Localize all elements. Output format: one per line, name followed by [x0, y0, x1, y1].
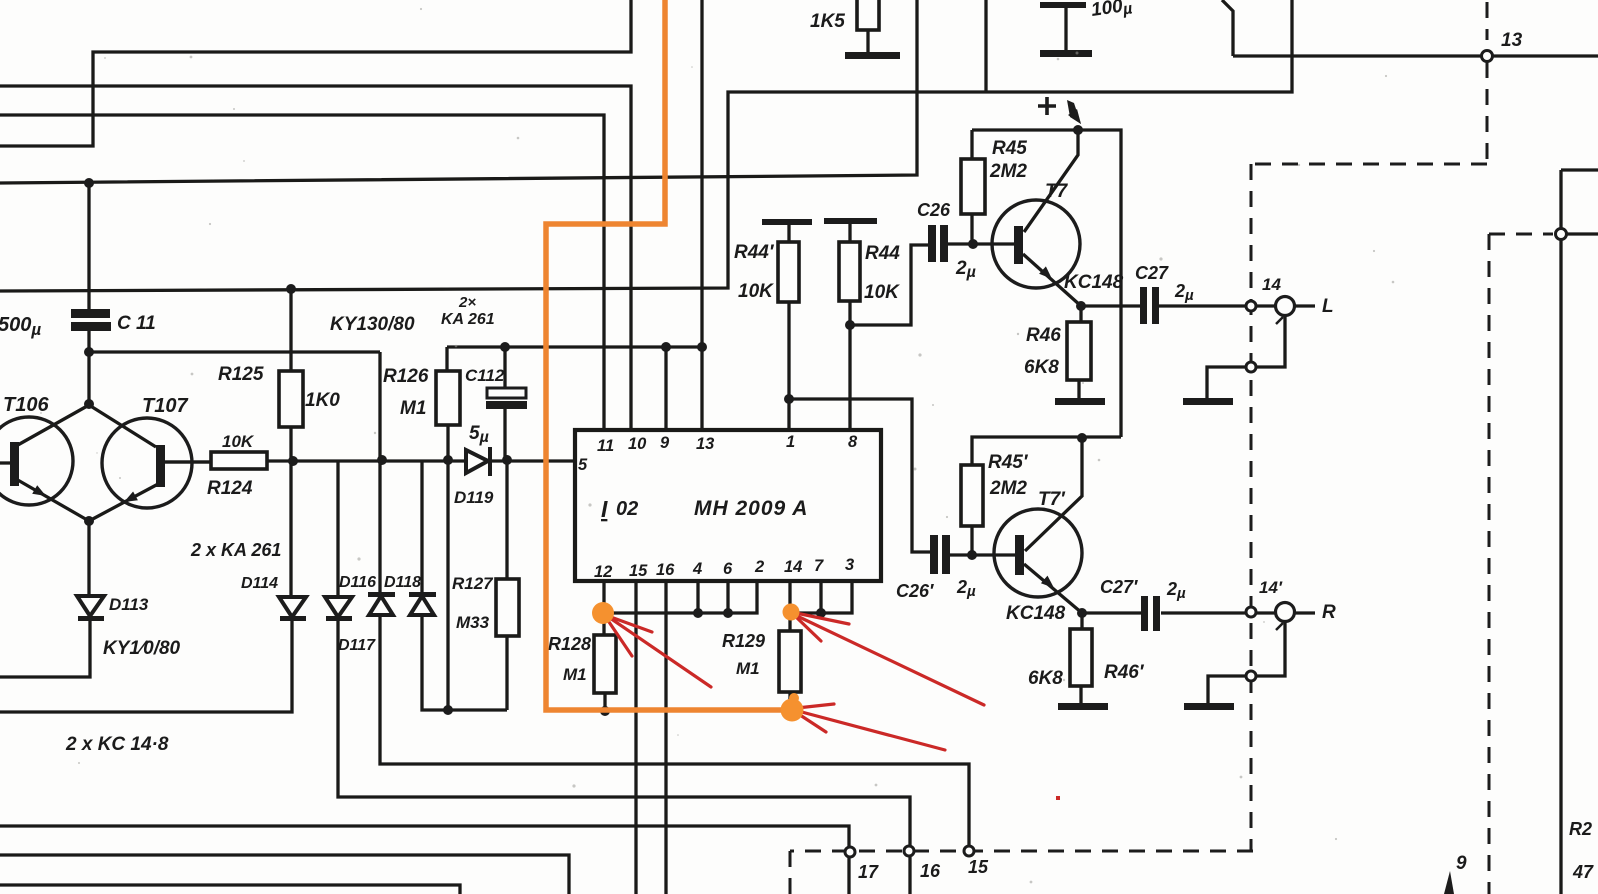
svg-text:3: 3 — [845, 556, 854, 574]
transistor T7p circle — [994, 509, 1082, 597]
svg-text:D114: D114 — [241, 575, 278, 592]
svg-text:R128: R128 — [548, 634, 591, 654]
wire feeding IC pin 10 — [0, 86, 631, 430]
resistor R45p 2M2 — [961, 465, 983, 526]
wire y347 branch to R126 C112 pins 9 13 — [447, 345, 702, 348]
connector circle right edge — [1556, 229, 1567, 240]
svg-text:MH 2009 A: MH 2009 A — [694, 497, 808, 520]
dashed link to circle node — [1489, 233, 1553, 236]
svg-text:9: 9 — [1456, 853, 1467, 874]
wire R46p bottom — [1079, 686, 1082, 703]
resistor R125 1K0 — [279, 371, 303, 427]
wire R125 top lead — [289, 289, 292, 371]
wire jogged net top-left — [0, 0, 631, 146]
resistor R129 M1 — [779, 631, 801, 692]
wire IC pin 12 to R128 — [602, 581, 605, 635]
wire D118 bottom to connector 15 — [380, 616, 969, 847]
connector circle 16 — [904, 846, 914, 856]
svg-text:M1: M1 — [736, 659, 760, 678]
wire C27 to output L — [1158, 304, 1315, 307]
capacitor C41 plates — [71, 309, 110, 318]
base bar T106 — [10, 442, 19, 486]
wire D113 bottom to left edge — [0, 618, 90, 677]
wire C112 top lead — [503, 347, 506, 388]
wire right edge solid vertical — [1559, 170, 1562, 894]
orange highlight trace — [546, 0, 790, 710]
node dot T7p emitter — [1077, 608, 1087, 618]
svg-text:14′: 14′ — [1259, 578, 1283, 597]
resistor R46 6K8 — [1067, 322, 1091, 380]
cathode bar D117b — [409, 592, 436, 597]
wire bottom node to D113 — [87, 521, 90, 595]
capacitor C112 bottom plate — [486, 401, 527, 409]
svg-text:17: 17 — [858, 862, 879, 882]
wire D116 bottom to connector 16 — [338, 618, 910, 847]
svg-text:D113: D113 — [109, 595, 149, 614]
emitter arrow T7p — [1041, 576, 1054, 588]
cathode bar D113 — [78, 616, 104, 621]
wire below connector 17 — [847, 857, 850, 894]
wire bottom pin bus left y613 — [604, 581, 757, 613]
crossing circle L ground leg — [1246, 362, 1256, 372]
svg-text:16: 16 — [656, 561, 675, 579]
dashed vertical x1489 — [1488, 234, 1491, 894]
svg-text:KC148: KC148 — [1006, 603, 1066, 624]
svg-text:D117: D117 — [338, 637, 376, 654]
wire bottom bus y888 — [0, 885, 460, 894]
orange blob pin 14 — [783, 604, 800, 621]
wire R127 top lead — [505, 461, 508, 579]
svg-text:I: I — [601, 496, 608, 522]
svg-text:13: 13 — [1501, 30, 1523, 51]
svg-text:R46′: R46′ — [1104, 662, 1145, 683]
wire bottom pin bus right y613 — [790, 581, 852, 613]
svg-text:2 x KC 14·8: 2 x KC 14·8 — [65, 734, 169, 755]
wire C112 bottom lead — [503, 409, 506, 461]
svg-text:T7′: T7′ — [1038, 489, 1066, 510]
svg-text:12: 12 — [594, 563, 612, 581]
node dot plus supply — [1073, 125, 1083, 135]
transistor T106 circle — [0, 417, 73, 505]
wire net 13 horizontal — [1222, 0, 1598, 56]
resistor 1K5 — [857, 0, 879, 30]
wire R126 top lead — [445, 347, 448, 371]
wire base line T107 to R124 — [165, 460, 211, 463]
wire R45 column — [970, 130, 973, 244]
red arrow A to pin12 node — [607, 613, 984, 750]
dashed drop at x790 — [789, 851, 792, 894]
wire R124 to IC pin 5 through D119 — [267, 459, 575, 462]
diode D116 — [325, 597, 352, 617]
ground bar R46 — [1055, 398, 1105, 405]
wire T106 emitter diagonal — [16, 479, 89, 521]
crossing circle R ground leg — [1246, 671, 1256, 681]
svg-text:4: 4 — [692, 560, 702, 578]
rail bar R44p — [762, 219, 812, 225]
wire D116 column — [336, 461, 339, 595]
node dot R124 R125 — [288, 456, 298, 466]
wire R44 node to C26 — [850, 245, 928, 325]
wire diode D117b bottom to y710 — [422, 616, 507, 710]
node dot T7p base — [967, 550, 977, 560]
dashed box left edge — [1250, 164, 1253, 851]
wire IC pin 6 — [726, 581, 729, 613]
node dot R44p bottom — [784, 394, 794, 404]
wire T7p top rail — [972, 437, 1121, 465]
svg-text:KC148: KC148 — [1064, 272, 1124, 293]
diode D117b — [410, 596, 434, 615]
dashed box bottom edge — [790, 850, 1253, 853]
svg-text:C26: C26 — [917, 200, 951, 220]
wire R46 top — [1079, 306, 1082, 322]
wire R46 bottom to ground — [1077, 380, 1080, 398]
capacitor C26p plates — [930, 535, 938, 574]
base bar T7 — [1014, 226, 1023, 264]
svg-text:10K: 10K — [864, 282, 900, 303]
svg-text:R44: R44 — [865, 243, 900, 264]
svg-text:T7: T7 — [1045, 181, 1069, 202]
svg-text:15: 15 — [968, 857, 989, 877]
orange blob pin 12 — [592, 602, 804, 722]
emitter arrow T106 — [32, 485, 46, 496]
svg-text:2M2: 2M2 — [989, 478, 1027, 499]
cathode bar D118 — [368, 592, 395, 597]
node dot y183 junction — [84, 178, 94, 188]
node dot pin4 — [693, 608, 703, 618]
wire feeding IC pin 11 — [0, 115, 604, 430]
svg-text:7: 7 — [814, 557, 824, 575]
svg-text:10K: 10K — [738, 281, 774, 302]
resistor R45 2M2 — [961, 159, 985, 214]
wire diode D117b top lead — [420, 461, 423, 594]
svg-text:D119: D119 — [454, 488, 494, 507]
diode D113 — [77, 596, 104, 616]
node dot R128 bottom — [600, 706, 610, 716]
emitter arrow T7 — [1039, 266, 1052, 279]
connector circle 17 — [845, 847, 855, 857]
wire R126 bottom lead long vertical to y710 — [446, 425, 449, 710]
svg-text:KY1⁄0/80: KY1⁄0/80 — [103, 638, 181, 659]
wire T7 emitter — [1023, 254, 1081, 306]
red arrow B to pin14 node — [795, 615, 984, 705]
crossing circle output R dashed — [1246, 607, 1256, 617]
svg-text:C27: C27 — [1135, 263, 1169, 283]
base bar T7p — [1015, 535, 1024, 575]
svg-text:M33: M33 — [456, 613, 490, 632]
svg-text:T107: T107 — [142, 395, 188, 417]
node dot pin9 net — [661, 342, 671, 352]
node dot R129 bottom — [785, 705, 795, 715]
wire R127 bottom lead — [505, 636, 508, 710]
svg-text:C27′: C27′ — [1100, 577, 1138, 597]
wire output R down leg to ground — [1208, 621, 1285, 703]
wire T107 emitter diagonal — [89, 483, 160, 521]
wire R44p node to C26p via east side — [789, 399, 930, 552]
output socket R — [1276, 603, 1295, 622]
wire T7p emitter to C27p — [1082, 611, 1141, 614]
resistor R126 M1 — [436, 371, 460, 425]
cathode bar D116 — [326, 616, 352, 621]
wire IC pin 14 to R129 — [788, 581, 791, 631]
svg-text:2 x KA 261: 2 x KA 261 — [190, 540, 281, 560]
orange blob R129 bottom — [781, 699, 804, 722]
wire R128 bottom — [603, 693, 606, 712]
plus symbol — [1038, 97, 1056, 115]
rail bar R44 — [824, 218, 877, 224]
capacitor C27p plates — [1141, 596, 1148, 631]
node dot R126 bottom — [443, 455, 453, 465]
svg-text:6K8: 6K8 — [1024, 357, 1059, 378]
wire D114 bottom to left edge — [0, 618, 292, 712]
transistor T107 circle — [102, 418, 192, 508]
wire C41 to diamond top node — [87, 331, 90, 404]
svg-text:8: 8 — [848, 433, 858, 451]
svg-text:R44′: R44′ — [734, 242, 775, 263]
svg-text:2M2: 2M2 — [989, 161, 1027, 182]
svg-text:1: 1 — [786, 433, 795, 451]
node dot T7 emitter — [1076, 301, 1086, 311]
arrow 9 bottom right — [1444, 871, 1454, 894]
wire T7p emitter — [1024, 564, 1082, 613]
resistor R124 10K — [211, 452, 267, 469]
svg-text:R125: R125 — [218, 364, 264, 385]
red speck — [1056, 796, 1060, 800]
node dot pin7 — [816, 608, 826, 618]
ground bar output R — [1184, 703, 1234, 710]
capacitor C112 top plate hollow — [487, 388, 526, 398]
transistor T7 circle — [992, 200, 1080, 288]
svg-text:R46: R46 — [1026, 325, 1061, 346]
ground bar R46p — [1058, 703, 1108, 710]
wire 1K5 bottom lead — [866, 30, 869, 53]
svg-text:1K0: 1K0 — [305, 390, 340, 411]
svg-text:KY130/80: KY130/80 — [330, 314, 415, 335]
svg-text:KA 261: KA 261 — [441, 311, 495, 328]
svg-text:11: 11 — [597, 437, 614, 455]
wire R129 bottom — [788, 692, 791, 711]
tick under socket L — [1276, 317, 1283, 324]
node dot pin6 — [723, 608, 733, 618]
red arrow C to R129 node — [798, 711, 945, 750]
wire R46p top — [1080, 613, 1083, 629]
svg-text:6K8: 6K8 — [1028, 668, 1063, 689]
tick under socket R — [1276, 623, 1283, 630]
wire R44 column pin 8 — [848, 224, 851, 430]
wire T7p collector — [1025, 439, 1082, 551]
svg-text:02: 02 — [616, 498, 638, 520]
svg-text:M1: M1 — [400, 398, 426, 419]
wire D118 column top — [378, 352, 381, 594]
node dot R125 top — [286, 284, 296, 294]
cursor arrow at plus node — [1067, 100, 1454, 894]
svg-text:5: 5 — [578, 456, 588, 474]
ground bar output L — [1183, 398, 1233, 405]
cathode bar D114 — [280, 616, 306, 621]
svg-text:D118: D118 — [384, 574, 421, 591]
node dot D118 crossing — [377, 455, 387, 465]
capacitor C26 plates — [928, 225, 936, 262]
node dot R44 bottom — [845, 320, 855, 330]
svg-text:C 11: C 11 — [117, 313, 156, 334]
svg-text:10: 10 — [628, 435, 647, 453]
svg-text:C112: C112 — [465, 366, 505, 385]
wire IC pin 4 — [696, 581, 699, 613]
IC box I02 MH2009A — [575, 430, 881, 581]
svg-text:16: 16 — [920, 861, 941, 881]
crossing circle output L dashed — [1246, 301, 1256, 311]
svg-text:6: 6 — [723, 560, 733, 578]
capacitor 100u plates — [1040, 2, 1086, 8]
resistor R127 M33 — [496, 579, 519, 636]
node dot C112 R127 — [502, 455, 512, 465]
node dot y710 — [443, 705, 453, 715]
svg-text:R45′: R45′ — [988, 452, 1029, 473]
svg-text:1K5: 1K5 — [810, 11, 845, 32]
node dot C41 bottom — [84, 347, 94, 357]
wire plus node horizontal and down east — [972, 130, 1121, 437]
dashed stub above connector 13 — [1486, 2, 1489, 40]
connector circle 15 — [964, 846, 974, 856]
svg-text:2×: 2× — [458, 294, 476, 311]
wire C41 column from y183 node — [87, 183, 90, 309]
svg-text:R2: R2 — [1569, 819, 1592, 839]
node dot pin13 net — [697, 342, 707, 352]
node dot T7p collector rail — [1077, 433, 1087, 443]
node dot T7 base — [968, 239, 978, 249]
resistor R44 10K — [839, 242, 860, 301]
wire T107 collector diagonal — [89, 405, 156, 447]
capacitor C27 plates — [1140, 287, 1147, 324]
connector circle 13 — [1482, 51, 1493, 62]
wire bottom bus y826 to connector 17 — [0, 826, 849, 847]
diode D114 — [279, 597, 306, 617]
wire IC pin 9 vertical — [664, 347, 667, 430]
wire C27p to output R — [1161, 611, 1315, 614]
wire right horizontal y234 — [1561, 232, 1598, 235]
svg-text:R129: R129 — [722, 631, 765, 651]
resistor R128 M1 — [594, 635, 616, 693]
svg-text:T106: T106 — [3, 394, 49, 416]
wire vertical stub into y92 rail — [984, 0, 987, 92]
svg-text:C26′: C26′ — [896, 581, 934, 601]
svg-text:R124: R124 — [207, 478, 253, 499]
svg-text:47: 47 — [1572, 862, 1594, 882]
svg-text:10K: 10K — [222, 432, 255, 451]
svg-text:L: L — [1322, 296, 1334, 317]
node dot C112 top — [500, 342, 510, 352]
svg-text:14: 14 — [1262, 275, 1281, 294]
svg-text:M1: M1 — [563, 665, 587, 684]
diode D118 — [369, 596, 393, 615]
emitter arrow T107 — [124, 492, 138, 503]
ground bar 1K5 — [845, 52, 900, 59]
cathode bar D119 — [488, 447, 492, 476]
wire R45p bottom — [970, 526, 973, 555]
svg-text:R127: R127 — [452, 574, 494, 593]
node dot diamond top — [84, 399, 94, 409]
svg-text:D116: D116 — [339, 574, 376, 591]
output socket L — [1276, 297, 1295, 316]
wire bottom bus y857 — [0, 855, 569, 894]
wire IC pin 7 — [819, 581, 822, 613]
wire T107 base lead — [165, 460, 211, 463]
wire C41 node to D118 column top — [89, 350, 380, 353]
wire T106 collector diagonal — [16, 405, 89, 446]
wire T106 base lead — [0, 461, 10, 464]
wire below connector 16 — [908, 857, 911, 894]
base bar T107 — [156, 445, 165, 487]
resistor R44p 10K — [778, 242, 799, 302]
dashed box top edge — [1251, 163, 1487, 166]
wire sloped long horizontal to top edge — [0, 0, 917, 183]
wire right edge top horizontal — [1561, 168, 1598, 171]
dashed vertical below connector 13 — [1486, 62, 1489, 164]
wire IC pin 13 vertical from top edge — [700, 0, 703, 430]
svg-text:13: 13 — [696, 435, 714, 453]
svg-text:14: 14 — [784, 558, 802, 576]
wire R44p column pin 1 — [787, 225, 790, 430]
wire IC pin 16 long vertical — [664, 581, 667, 894]
svg-text:15: 15 — [629, 562, 648, 580]
wire supply rail: left edge to R125 node, up at x728, across y92, up at x1292 — [0, 0, 1292, 291]
svg-text:2: 2 — [754, 558, 764, 576]
svg-text:R: R — [1322, 602, 1336, 623]
resistor R46p 6K8 — [1070, 629, 1092, 686]
wire 100u cap vertical — [1064, 7, 1067, 51]
wire T7 collector — [1024, 131, 1078, 232]
wire T7 emitter to C27 — [1081, 304, 1140, 307]
svg-text:R126: R126 — [383, 366, 429, 387]
wire R125 bottom to D114 top — [289, 427, 292, 595]
wire output L down leg to ground — [1207, 315, 1285, 398]
wire C26p to T7p base — [950, 553, 1015, 556]
diode D119 — [466, 450, 488, 473]
node dot diamond bottom — [84, 516, 94, 526]
svg-text:R45: R45 — [992, 138, 1027, 159]
svg-text:9: 9 — [660, 434, 670, 452]
wire C26 to T7 base — [948, 242, 1014, 245]
wire IC pin 15 long vertical — [634, 581, 637, 894]
